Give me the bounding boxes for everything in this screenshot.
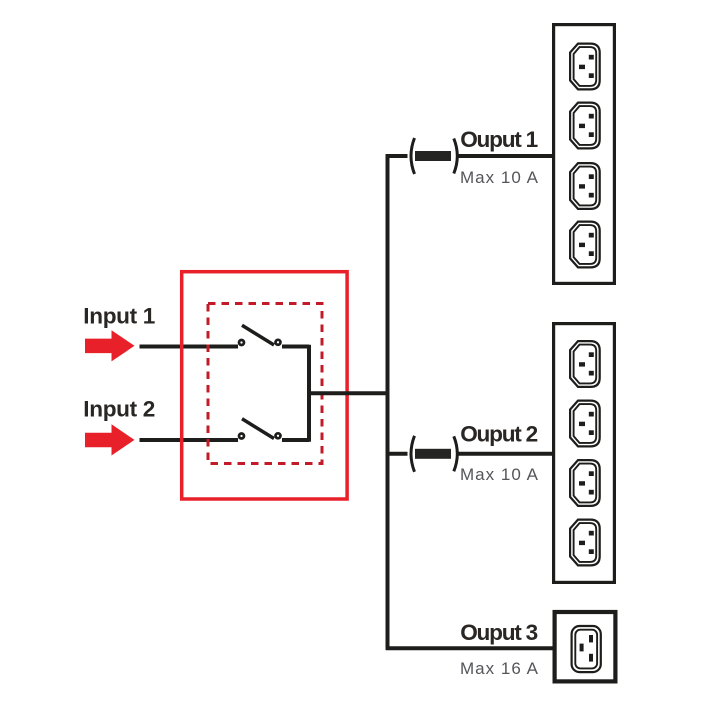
wire junction vertical [307,345,311,442]
transfer switch enclosure (red solid box) [182,272,347,499]
socket J4 (C13) [570,222,600,268]
switch S2 blade [242,419,274,439]
socket J5 (C13) [570,341,600,387]
socket J3 (C13) [570,163,600,209]
svg-text:Input 1: Input 1 [83,304,155,329]
breaker CB2 left contact arc [411,436,415,472]
svg-text:Max 10 A: Max 10 A [460,168,539,187]
switch S1 left terminal [239,340,244,345]
outlet box 3 [555,612,616,681]
breaker CB1 bar [415,151,451,161]
wire output 1 left segment [386,154,408,158]
breaker CB1 right contact arc [454,139,458,174]
switch S2 left terminal [239,434,244,439]
input arrow 2 [85,424,135,455]
breaker CB2 bar [415,449,451,459]
outlet strip box 1 [554,25,615,284]
wire output 2 left segment [386,452,408,456]
wire S2 output to junction [282,438,309,442]
wire switch output to bus [309,391,388,395]
svg-text:Max 10 A: Max 10 A [460,465,539,484]
wire output 2 right segment [458,452,554,456]
input arrow 1 [85,330,135,361]
wire input 1 [140,345,239,349]
svg-text:Ouput 3: Ouput 3 [460,620,538,645]
socket J6 (C13) [570,401,600,447]
socket J1 (C13) [570,44,600,90]
socket J9 (C19) [572,626,601,672]
breaker CB2 right contact arc [454,436,458,471]
svg-text:Ouput 1: Ouput 1 [460,127,538,152]
wire input 2 [140,438,239,442]
wire output 1 right segment [458,154,554,158]
socket J2 (C13) [570,103,600,149]
socket J8 (C13) [570,520,600,566]
wire output 3 [386,646,553,650]
switch S2 right terminal [276,433,281,438]
main bus vertical [386,154,390,650]
socket J7 (C13) [570,460,600,506]
svg-text:Max 16 A: Max 16 A [460,659,539,678]
wire S1 output to junction [282,345,309,349]
switch S1 right terminal [276,340,281,345]
switch S1 blade [242,325,274,345]
breaker CB1 left contact arc [411,138,415,174]
outlet strip box 2 [554,324,615,583]
relay block boundary (red dashed box) [208,304,322,464]
svg-text:Input 2: Input 2 [83,397,155,422]
svg-text:Ouput 2: Ouput 2 [460,421,538,446]
